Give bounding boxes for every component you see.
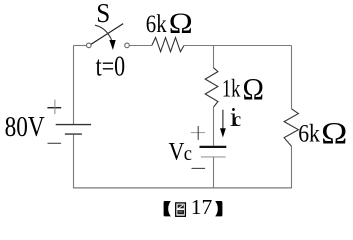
svg-text:17: 17	[191, 195, 213, 219]
label t=0	[96, 51, 126, 83]
battery B1 short plate (-)	[65, 133, 82, 135]
caption text 17	[191, 195, 213, 219]
svg-text:80V: 80V	[5, 112, 45, 143]
current label i	[230, 102, 238, 132]
caption left lenticular bracket	[164, 201, 171, 216]
unit label ohm (middle)	[243, 71, 264, 106]
caption right lenticular bracket	[215, 201, 222, 216]
capacitor minus sign	[192, 167, 206, 169]
capacitor C bottom plate	[201, 156, 226, 158]
value label 1k	[222, 74, 241, 103]
svg-text:S: S	[96, 0, 110, 28]
wire switch to resistor R1	[129, 45, 152, 47]
voltage label subscript c	[184, 143, 192, 165]
capacitor C top plate	[200, 146, 227, 148]
svg-text:c: c	[184, 143, 192, 165]
switch S closing arc arrow	[95, 25, 116, 50]
switch S left terminal	[87, 43, 92, 48]
resistor R3 vertical zigzag	[284, 109, 298, 147]
value label 6k (right)	[298, 119, 320, 148]
battery plus sign	[47, 100, 61, 115]
wire left vertical upper (corner down to battery)	[73, 46, 75, 125]
svg-text:c: c	[234, 109, 242, 131]
unit label ohm (right)	[321, 115, 347, 150]
switch S right terminal	[125, 43, 130, 48]
wire right branch upper	[291, 46, 293, 109]
svg-text:6k: 6k	[298, 119, 320, 148]
wire middle branch (resistor to capacitor)	[213, 107, 215, 146]
voltage label V	[169, 139, 185, 166]
switch S blade	[91, 24, 123, 45]
wire middle branch lower (capacitor to bottom rail)	[213, 157, 215, 188]
current label subscript c	[234, 109, 242, 131]
value label 6k (top)	[146, 11, 167, 38]
resistor R2 vertical zigzag	[205, 68, 218, 108]
svg-text:Ω: Ω	[321, 115, 347, 150]
current arrow ic	[220, 110, 226, 138]
svg-text:Ω: Ω	[243, 71, 264, 106]
battery minus sign	[48, 142, 62, 144]
value label 80V	[5, 112, 45, 143]
svg-text:1k: 1k	[222, 74, 241, 103]
wire middle branch upper stub	[213, 46, 215, 68]
svg-text:6k: 6k	[146, 11, 167, 38]
capacitor plus sign	[191, 126, 205, 140]
label S	[96, 0, 110, 28]
wire right branch lower	[291, 146, 293, 188]
wire top rail (resistor to right branch)	[184, 45, 292, 47]
svg-text:Ω: Ω	[169, 7, 193, 40]
battery B1 long plate (+)	[56, 124, 91, 126]
wire left vertical lower (battery to bottom rail)	[73, 135, 75, 189]
svg-text:V: V	[169, 139, 185, 166]
resistor R1 horizontal zigzag	[152, 38, 184, 52]
wire top-left horizontal (corner to switch)	[74, 45, 87, 47]
unit label ohm (top)	[169, 7, 193, 40]
caption CJK glyph tu (figure)	[176, 203, 186, 216]
wire bottom rail	[73, 187, 292, 189]
svg-text:t=0: t=0	[96, 51, 126, 83]
